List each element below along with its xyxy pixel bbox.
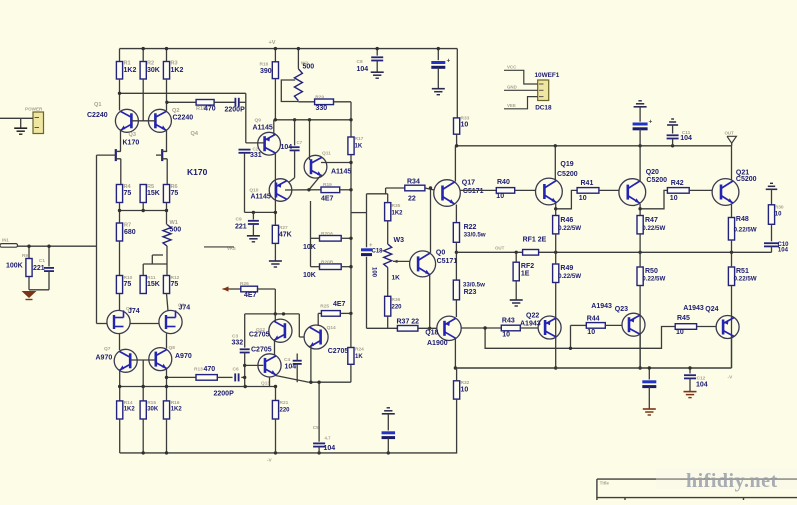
svg-text:2200P: 2200P (214, 391, 235, 398)
wire R50 top (639, 252, 641, 267)
wire Q6 drop (166, 334, 168, 349)
resistor RF2 1E (513, 262, 519, 281)
svg-text:A1943: A1943 (683, 305, 704, 312)
wire R25 right (340, 312, 351, 314)
svg-text:100K: 100K (6, 263, 23, 270)
transistor Q12 C2705 (269, 319, 292, 342)
node -V rail (120, 452, 458, 454)
resistor R30 10 (768, 205, 774, 225)
svg-text:100: 100 (371, 267, 377, 278)
wire mirror line (309, 189, 321, 191)
resistor R22 33 (453, 223, 459, 243)
svg-text:R48: R48 (736, 216, 749, 223)
svg-text:330: 330 (316, 105, 328, 112)
svg-text:C5: C5 (313, 425, 319, 431)
resistor R12 (163, 276, 169, 294)
wire Q4 gate wire (156, 154, 162, 156)
svg-text:1K: 1K (392, 275, 401, 282)
wire R25 left (318, 312, 321, 314)
ground C13 ground (432, 88, 445, 90)
svg-text:R15: R15 (147, 400, 156, 406)
wire C9 bottom (252, 224, 254, 236)
svg-text:R29: R29 (315, 94, 324, 100)
svg-text:104: 104 (696, 382, 708, 389)
wire R34 right (425, 188, 434, 190)
svg-text:10: 10 (461, 122, 469, 129)
svg-text:W1: W1 (170, 220, 178, 226)
resistor R3 (163, 62, 169, 80)
svg-text:R34: R34 (407, 179, 420, 186)
svg-text:R44: R44 (587, 316, 600, 323)
svg-text:R42: R42 (671, 180, 684, 187)
svg-text:VCC: VCC (507, 65, 517, 70)
svg-text:C5171: C5171 (463, 188, 484, 195)
transistor Q2 C2240 (148, 109, 171, 132)
wire VAS column c (350, 267, 352, 314)
svg-text:R16: R16 (260, 62, 269, 68)
svg-text:A1145: A1145 (331, 169, 351, 176)
resistor R20B 10K (320, 264, 342, 270)
wire J1 stub VCC (504, 70, 538, 84)
svg-text:R3: R3 (171, 61, 178, 67)
svg-text:RF2: RF2 (521, 263, 534, 270)
svg-text:4E7: 4E7 (244, 292, 257, 299)
electrolytic capacitor C15 (642, 380, 656, 383)
capacitor C3 332 (240, 348, 250, 350)
wire R33 bottom (456, 134, 458, 146)
wire R48 bottom (731, 240, 733, 252)
svg-text:R50: R50 (645, 268, 658, 275)
svg-text:C1: C1 (39, 258, 45, 263)
svg-text:R25: R25 (320, 304, 329, 310)
svg-text:+V: +V (269, 40, 276, 46)
wire R12 to Q6 (167, 294, 169, 311)
wire C9 stub (252, 212, 254, 219)
svg-text:680: 680 (124, 229, 136, 236)
resistor R11 (140, 276, 146, 294)
svg-text:R2: R2 (147, 61, 154, 67)
wire C14 bottom (639, 129, 641, 146)
connector J1 10WEF1 (538, 80, 549, 101)
svg-text:221: 221 (235, 224, 247, 231)
wire R1 to Q1 (119, 79, 121, 111)
svg-text:104: 104 (680, 135, 692, 142)
transistor Q9 A1145 (258, 132, 281, 155)
resistor R2 (140, 62, 146, 80)
wire Q7 emitter drop (119, 371, 121, 401)
jfet Q5 J74 (107, 310, 130, 333)
wire R11 top (142, 264, 144, 276)
potentiometer W2 500 (294, 69, 302, 101)
svg-text:C9: C9 (236, 217, 242, 223)
wire C12 stub (689, 368, 691, 374)
wire Q9 base wire (246, 142, 265, 144)
svg-text:Q17: Q17 (462, 180, 475, 187)
wire R44 left (571, 324, 587, 326)
svg-text:R33: R33 (461, 116, 470, 122)
svg-text:10: 10 (775, 212, 782, 218)
resistor R17 1K (348, 137, 354, 155)
wire Q10 emitter line (285, 189, 309, 191)
resistor R32 10 (454, 381, 460, 399)
wire power gnd drop (20, 118, 22, 128)
svg-text:Q20: Q20 (646, 169, 659, 176)
svg-text:104: 104 (357, 66, 369, 73)
ground C12 ground (684, 391, 697, 393)
wire R27 bottom (274, 243, 276, 260)
svg-text:Q3: Q3 (129, 132, 136, 138)
svg-text:0.22/5W: 0.22/5W (558, 273, 581, 280)
resistor R6 (163, 185, 169, 203)
electrolytic capacitor C14 (633, 123, 648, 126)
svg-text:-V: -V (728, 375, 734, 381)
wire R16 bottom drop (274, 79, 276, 120)
capacitor C11 104 (667, 134, 679, 136)
svg-text:332: 332 (232, 340, 244, 347)
wire R3 top (166, 49, 168, 62)
wire Q7-Q8 base link (131, 359, 156, 361)
wire bias top link (367, 193, 388, 195)
svg-text:2200P: 2200P (225, 107, 246, 114)
resistor R33 10 (454, 118, 460, 134)
wire R46 bottom (555, 234, 557, 252)
wire VAS jog (351, 212, 367, 214)
svg-text:A970: A970 (96, 355, 113, 362)
wire R43 right (520, 327, 538, 329)
wire input line (0, 245, 97, 247)
svg-text:R20A: R20A (321, 231, 334, 237)
title block (597, 479, 797, 500)
wire comp wire 470 line (167, 101, 196, 103)
wire R27 top (274, 212, 276, 225)
resistor R27 47K (272, 225, 278, 243)
wire R30 bottom (771, 224, 773, 241)
svg-text:R41: R41 (581, 180, 594, 187)
svg-text:10: 10 (676, 329, 684, 336)
svg-text:A970: A970 (175, 353, 192, 360)
wire R36 bottom (387, 316, 389, 328)
wire RF2 top (515, 252, 517, 262)
svg-text:+: + (447, 58, 451, 65)
svg-text:Q8: Q8 (169, 345, 176, 351)
resistor R44 10 (586, 323, 605, 329)
resistor R51 (728, 267, 734, 286)
svg-text:30K: 30K (147, 67, 160, 74)
transistor Q24 A1943 (716, 316, 739, 339)
resistor R26 4E7 (241, 286, 258, 292)
svg-text:DC18: DC18 (535, 105, 552, 112)
wire R40 right (515, 189, 536, 191)
resistor R20A 10K (320, 236, 342, 242)
wire Q14 base drop (298, 314, 300, 337)
svg-text:Q4: Q4 (191, 131, 199, 137)
wire J1 stub GND (504, 89, 538, 91)
svg-text:1K2: 1K2 (124, 407, 136, 413)
wire R3 to Q2 (166, 79, 168, 111)
svg-text:R14: R14 (124, 400, 133, 406)
svg-text:POWER: POWER (25, 107, 43, 112)
svg-text:OUT: OUT (495, 246, 505, 251)
connector pins POWER (35, 117, 40, 119)
wire C4 top (296, 354, 298, 361)
svg-text:Q12: Q12 (256, 327, 265, 333)
wire W2 top (297, 49, 299, 69)
wire cluster left column b (244, 353, 246, 387)
svg-text:W3: W3 (394, 237, 405, 244)
wire R32 bottom (456, 399, 458, 453)
net arrow VAS2 (223, 288, 230, 290)
svg-text:+: + (369, 243, 373, 249)
svg-text:R49: R49 (560, 265, 573, 272)
wire gate line mid (130, 323, 159, 325)
svg-text:C2705: C2705 (251, 347, 272, 354)
svg-text:R30: R30 (775, 205, 784, 211)
svg-text:IN1: IN1 (2, 238, 9, 243)
svg-text:33/0.5w: 33/0.5w (463, 282, 485, 289)
svg-text:1E: 1E (521, 271, 530, 278)
wire lower comp line (167, 376, 197, 378)
resistor R41 10 (577, 188, 599, 194)
wire Q17 emitter down (455, 205, 457, 223)
svg-text:R17: R17 (355, 136, 364, 142)
resistor R34 22 (405, 185, 425, 191)
svg-text:A1943: A1943 (591, 303, 612, 310)
wire R50 bottom (639, 286, 641, 369)
wire VAS column a (350, 155, 352, 239)
svg-text:470: 470 (204, 106, 216, 113)
svg-text:104: 104 (285, 364, 297, 371)
wire Q1-Q2 base link (132, 120, 156, 122)
svg-text:J74: J74 (128, 308, 140, 315)
wire Q12 collector up (274, 314, 276, 322)
ground input (filled) (22, 291, 37, 298)
wire R49 bottom (555, 283, 557, 369)
svg-text:C2240: C2240 (173, 115, 194, 122)
wire R21 column (275, 387, 277, 401)
wire 470 to C2200p (214, 101, 235, 103)
svg-text:Q11: Q11 (322, 151, 331, 157)
wire C4 bottom (296, 364, 298, 382)
wire Q0 emitter down (429, 275, 431, 329)
resistor R21 220 (272, 401, 278, 420)
wire Q21 collector (731, 146, 733, 180)
svg-text:104: 104 (778, 248, 789, 254)
transistor Q22 A1943 (538, 316, 561, 339)
svg-text:Q1: Q1 (94, 102, 101, 108)
watermark hifidiy.net (656, 468, 797, 489)
svg-text:R21: R21 (280, 400, 289, 406)
wire C5 stub (318, 382, 320, 442)
wire C16 bottom (387, 438, 389, 453)
wire cluster bus (309, 381, 351, 383)
jfet Q4 K170 (162, 149, 167, 161)
transistor Q21 C5200 (712, 179, 739, 206)
wire cluster top line (245, 313, 300, 315)
resistor R13 470 (196, 375, 217, 381)
resistor R9 100K (26, 259, 32, 277)
svg-text:R32: R32 (461, 380, 470, 386)
resistor R43 10 (501, 325, 520, 331)
wire comp corner drop (245, 93, 247, 143)
svg-text:-V: -V (267, 458, 273, 464)
wire C12 bottom (689, 378, 691, 391)
wire base bus (461, 327, 501, 329)
wire R51 top (731, 252, 733, 267)
wire Q2 emitter drop (166, 130, 168, 151)
ground C9 ground (247, 235, 260, 237)
transistor Q19 C5200 (536, 178, 563, 205)
wire gate line left (97, 323, 108, 325)
wire R16b bottom (166, 419, 168, 453)
wire W1 wiper stub (152, 254, 163, 256)
svg-text:R24: R24 (355, 347, 364, 353)
wire R2 to bases (142, 79, 144, 121)
wire C11 bottom (672, 139, 674, 146)
svg-text:10: 10 (579, 195, 587, 202)
wire R13 to C6 (217, 376, 232, 378)
resistor R29 330 (315, 99, 334, 105)
svg-text:104: 104 (281, 144, 293, 151)
wire C13 stub (437, 49, 439, 61)
svg-text:hifidiy.net: hifidiy.net (686, 470, 778, 492)
wire R20A left (311, 237, 320, 239)
wire VAS column b (350, 238, 352, 266)
wire C5 bottom (318, 447, 320, 453)
svg-text:R1: R1 (124, 61, 131, 67)
wire Q11 collector right (321, 162, 351, 164)
svg-text:C7: C7 (297, 140, 303, 145)
wire C8 stub (376, 49, 378, 56)
wire Q14 base stub (299, 336, 304, 338)
svg-text:+: + (649, 119, 653, 126)
wire R20A right (341, 237, 351, 239)
svg-text:C6: C6 (233, 367, 239, 373)
svg-text:OUT: OUT (725, 131, 735, 136)
wire Q9 collector down (274, 153, 276, 213)
svg-text:C18: C18 (372, 249, 384, 255)
wire R6 bottom (166, 203, 168, 225)
transistor Q8 A970 (149, 348, 172, 371)
wire power wire (0, 117, 33, 119)
resistor R1 (116, 62, 122, 80)
ground C15 ground (643, 408, 656, 410)
capacitor C 2200P (234, 98, 236, 107)
capacitor C6 (234, 373, 236, 381)
wire C9 node line (245, 211, 276, 213)
connector IN (0, 244, 18, 248)
resistor R36 220 (385, 296, 391, 316)
svg-text:RF1 2E: RF1 2E (523, 237, 547, 244)
wire VAS stub (204, 246, 234, 248)
svg-text:A1145: A1145 (253, 125, 273, 132)
wire R41 right (599, 189, 619, 191)
resistor R13a 470 (196, 100, 214, 106)
svg-text:0.22/5W: 0.22/5W (734, 227, 757, 234)
wire R14 bottom (119, 419, 121, 453)
svg-text:10WEF1: 10WEF1 (535, 72, 560, 79)
resistor R35 1K2 (385, 203, 391, 221)
electrolytic capacitor C16 (382, 431, 396, 434)
wire R29 corner drop (350, 102, 352, 137)
electrolytic capacitor C18 (361, 248, 372, 251)
wire bottom drive loop (485, 327, 675, 349)
resistor R25 4E7 (321, 311, 340, 317)
wire Q9 emitter up (273, 120, 275, 135)
wire W1 bottom drop (166, 246, 168, 276)
wire C15 stub (648, 368, 650, 380)
wire Q4 drain drop (166, 159, 168, 185)
svg-text:R9: R9 (22, 253, 28, 258)
svg-text:75: 75 (171, 281, 179, 288)
svg-text:1K2: 1K2 (171, 407, 183, 413)
wire Q11 emitter diagonal (309, 175, 322, 190)
svg-text:30K: 30K (147, 407, 159, 413)
wire Q14 emitter drop (310, 346, 312, 383)
wire +V rail right drop (456, 49, 458, 118)
wire R24 top (350, 313, 352, 347)
svg-text:33/0.5w: 33/0.5w (464, 232, 486, 239)
svg-text:1K: 1K (355, 144, 363, 150)
svg-text:10: 10 (502, 332, 510, 339)
svg-text:220: 220 (280, 408, 291, 414)
wire C15 bottom (648, 387, 650, 409)
resistor R23 33 (453, 280, 459, 300)
ground C11 ground (671, 118, 674, 120)
wire C2200p to corner (240, 101, 246, 103)
wire Q13 base line (245, 364, 264, 366)
capacitor C7 104 (290, 146, 300, 148)
svg-text:Q22: Q22 (526, 313, 539, 320)
wire R19 right (340, 189, 351, 191)
svg-text:1K: 1K (355, 354, 363, 360)
svg-text:R19: R19 (323, 182, 332, 188)
potentiometer W3 1K (384, 244, 392, 268)
wire Q5 drop (119, 334, 121, 350)
svg-text:K170: K170 (187, 167, 208, 177)
svg-text:R51: R51 (736, 268, 749, 275)
svg-text:C2705: C2705 (328, 348, 349, 355)
svg-text:A1943: A1943 (520, 321, 541, 328)
svg-text:A1900: A1900 (427, 340, 448, 347)
wire R45 right (697, 326, 717, 328)
jfet Q6 J74 (159, 310, 182, 333)
transistor Q18 A1900 (437, 316, 461, 340)
svg-text:Q19: Q19 (560, 161, 573, 168)
ground RF2 ground (510, 299, 523, 301)
transistor Q7 A970 (114, 349, 137, 372)
wire comp wire top (120, 92, 246, 94)
wire W2 wiper loop (281, 80, 298, 102)
resistor R7 680 (116, 223, 122, 241)
resistor R16b (163, 401, 169, 419)
wire R15 bottom (142, 419, 144, 453)
svg-text:R22: R22 (464, 224, 477, 231)
wire Q19 emitter tap (556, 190, 577, 208)
svg-text:C5200: C5200 (646, 177, 667, 184)
node OUT rail (456, 251, 522, 253)
svg-text:1K2: 1K2 (124, 67, 137, 74)
capacitor C1 221 (44, 267, 54, 269)
svg-text:R43: R43 (502, 318, 515, 325)
resistor R19 4E7 (321, 187, 340, 193)
connector pins 10WEF1 (539, 83, 544, 85)
wire R26 right (258, 288, 276, 290)
node output collector rail (455, 367, 731, 369)
svg-text:0.22/5W: 0.22/5W (558, 225, 581, 232)
resistor R14 (117, 401, 123, 419)
resistor R15 (140, 401, 146, 419)
transistor Q1 C2240 (115, 109, 138, 132)
